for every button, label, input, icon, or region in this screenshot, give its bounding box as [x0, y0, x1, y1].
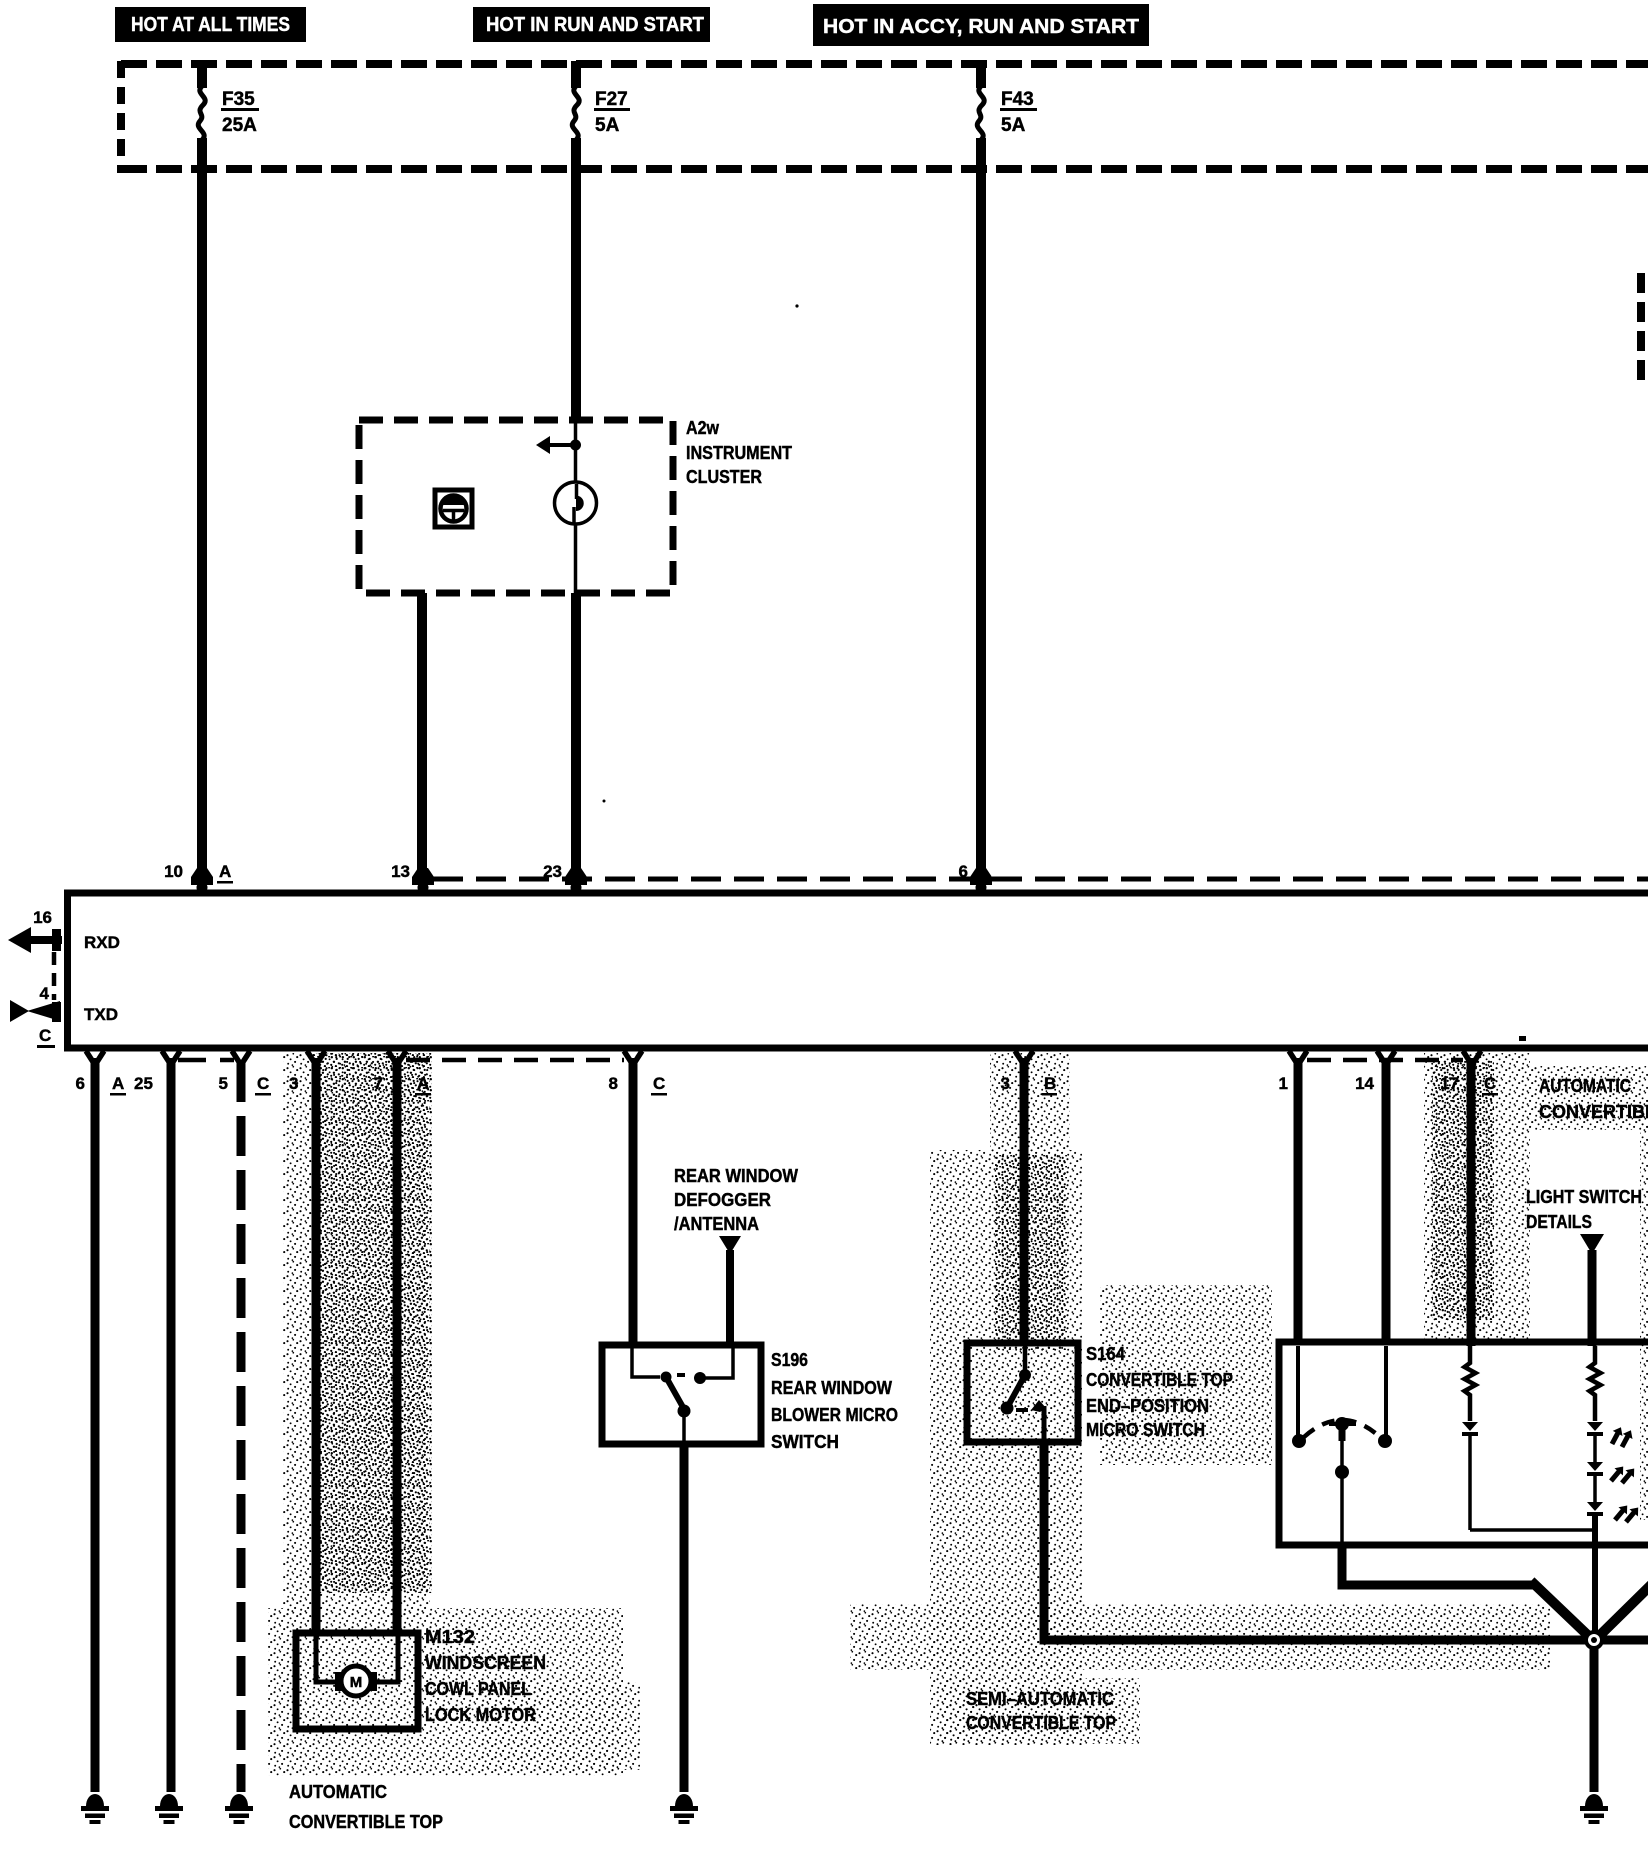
wire pin 1 to light switch	[1294, 1058, 1303, 1344]
svg-text:S196: S196	[771, 1350, 808, 1370]
lamp chain to junction	[1592, 1516, 1598, 1640]
dashed connector line above module	[433, 877, 1648, 882]
svg-text:5: 5	[219, 1074, 228, 1093]
fuse F43	[977, 86, 984, 140]
wire cluster pin 23 to module (thick below cluster)	[571, 593, 581, 874]
dashed line right edge (cut box)	[1637, 273, 1645, 380]
S196 internals: left feed	[632, 1348, 660, 1377]
svg-text:END–POSITION: END–POSITION	[1086, 1396, 1209, 1416]
wire pin 3/B to S164	[1020, 1058, 1029, 1346]
svg-text:F27: F27	[595, 89, 628, 110]
LED on pin 17 chain	[1462, 1422, 1478, 1436]
fuse box (dashed, cut off at right edge)	[121, 61, 1648, 173]
wire F43 feed	[976, 61, 986, 88]
instrument cluster A2w (dashed box)	[359, 420, 673, 593]
pin 6 top connector	[959, 862, 992, 893]
svg-text:CLUSTER: CLUSTER	[686, 467, 762, 487]
wire F27 feed	[571, 61, 581, 88]
svg-text:WINDSCREEN: WINDSCREEN	[425, 1653, 546, 1673]
dashed pin group links below module	[178, 1058, 234, 1063]
node junction dot	[570, 440, 581, 451]
svg-text:LOCK MOTOR: LOCK MOTOR	[425, 1705, 536, 1725]
SPECKLE	[268, 1053, 1648, 1776]
wire F35 to module pin 10	[197, 138, 207, 874]
S164 internals	[1023, 1346, 1028, 1372]
svg-text:CONVERTIBLE TOP: CONVERTIBLE TOP	[966, 1713, 1116, 1733]
switch S164 box	[967, 1343, 1078, 1442]
feed connector triangle	[1580, 1234, 1604, 1254]
dashed link 16-4	[52, 952, 57, 1000]
contact 1	[1296, 1346, 1300, 1436]
svg-text:S164: S164	[1086, 1344, 1125, 1364]
pin 10 connector	[164, 862, 233, 893]
svg-text:C: C	[1484, 1074, 1496, 1093]
svg-text:5A: 5A	[1001, 115, 1026, 136]
svg-text:A: A	[417, 1074, 429, 1093]
svg-text:M132: M132	[425, 1627, 475, 1647]
svg-text:16: 16	[33, 908, 52, 927]
wire F27 to instrument cluster	[571, 138, 581, 423]
svg-text:1: 1	[1279, 1074, 1288, 1093]
fuse F35	[198, 86, 205, 140]
svg-text:13: 13	[391, 862, 410, 881]
svg-text:CONVERTIBLE TOP: CONVERTIBLE TOP	[1086, 1370, 1233, 1390]
wire lamp to cluster bottom	[574, 524, 578, 593]
wire pin 3 to M132	[312, 1058, 321, 1633]
svg-text:8: 8	[609, 1074, 618, 1093]
arrow pointing left	[548, 443, 575, 447]
svg-text:REAR WINDOW: REAR WINDOW	[674, 1166, 798, 1186]
header label HOT IN RUN AND START	[473, 7, 710, 42]
svg-text:AUTOMATIC: AUTOMATIC	[289, 1782, 387, 1802]
wire pin 5/C to ground (dashed)	[237, 1062, 246, 1792]
svg-text:HOT IN RUN AND START: HOT IN RUN AND START	[486, 14, 704, 36]
svg-text:B: B	[1044, 1074, 1056, 1093]
svg-text:14: 14	[1355, 1074, 1374, 1093]
ground G2	[155, 1794, 183, 1824]
ground G1	[81, 1794, 109, 1824]
svg-text:DETAILS: DETAILS	[1526, 1212, 1592, 1232]
svg-text:C: C	[257, 1074, 269, 1093]
wire junction to ground	[1590, 1640, 1599, 1792]
motor M circle	[341, 1666, 371, 1696]
dashed wiper arc	[1304, 1420, 1380, 1437]
wire F35 feed	[197, 61, 207, 88]
wiper	[1335, 1417, 1349, 1431]
svg-text:HOT IN ACCY, RUN AND START: HOT IN ACCY, RUN AND START	[823, 16, 1139, 38]
svg-text:DEFOGGER: DEFOGGER	[674, 1190, 771, 1210]
svg-text:10: 10	[164, 862, 183, 881]
LED 1 with arrows	[1587, 1422, 1636, 1450]
svg-text:C: C	[39, 1026, 51, 1045]
wire cluster bottom-left exit to module pin 13	[417, 593, 427, 874]
contact 14	[1384, 1346, 1388, 1436]
svg-text:RXD: RXD	[84, 933, 120, 952]
wire F43 to module pin 6	[976, 138, 986, 874]
svg-text:REAR WINDOW: REAR WINDOW	[771, 1378, 892, 1398]
LED 3 with arrows	[1587, 1502, 1642, 1526]
svg-text:A: A	[219, 862, 231, 881]
svg-text:7: 7	[374, 1074, 383, 1093]
lamp symbol (indicator bulb)	[555, 482, 597, 524]
header label HOT IN ACCY, RUN AND START	[813, 4, 1149, 46]
ground G5	[1580, 1794, 1608, 1824]
svg-text:A: A	[112, 1074, 124, 1093]
light switch box (cut off at right)	[1279, 1342, 1648, 1545]
motor M132 box	[296, 1633, 418, 1729]
M132 leads	[316, 1636, 338, 1682]
svg-text:F43: F43	[1001, 89, 1034, 110]
svg-text:INSTRUMENT: INSTRUMENT	[686, 443, 792, 463]
wire pin 8/C to S196	[629, 1058, 638, 1348]
svg-text:LIGHT SWITCH: LIGHT SWITCH	[1526, 1187, 1642, 1207]
wire pin 7/A to M132	[393, 1058, 402, 1633]
wire feed to light switch	[1588, 1250, 1597, 1346]
ground G3	[225, 1794, 253, 1824]
svg-text:M: M	[350, 1674, 363, 1691]
svg-text:3: 3	[289, 1074, 298, 1093]
svg-text:/ANTENNA: /ANTENNA	[674, 1214, 759, 1234]
svg-text:F35: F35	[222, 89, 255, 110]
control module box (cut off at right edge)	[68, 893, 1648, 1048]
wire pin 14 to light switch	[1382, 1058, 1391, 1344]
svg-text:6: 6	[76, 1074, 85, 1093]
svg-text:TXD: TXD	[84, 1005, 118, 1024]
svg-text:23: 23	[543, 862, 562, 881]
svg-text:A2w: A2w	[686, 418, 720, 438]
wire inside cluster (thin)	[574, 423, 578, 482]
svg-text:25: 25	[134, 1074, 153, 1093]
svg-text:SEMI–AUTOMATIC: SEMI–AUTOMATIC	[966, 1689, 1114, 1709]
wire antenna to S196	[726, 1250, 734, 1348]
pin 4 TXD arrow (left, pointing right)	[10, 984, 118, 1048]
LED 2 with arrows	[1587, 1462, 1638, 1487]
GROUNDS	[795, 304, 798, 307]
wire pin 6 to ground	[91, 1058, 100, 1792]
switch S196 box	[602, 1345, 761, 1444]
svg-text:SWITCH: SWITCH	[771, 1432, 839, 1452]
wire pin 17/C to light switch	[1467, 1058, 1476, 1346]
svg-text:6: 6	[959, 862, 968, 881]
svg-text:CONVERTIBLE: CONVERTIBLE	[1539, 1102, 1648, 1122]
wire S164 output down and right	[1044, 1442, 1648, 1640]
svg-text:BLOWER MICRO: BLOWER MICRO	[771, 1405, 898, 1425]
S196 dashed contact gap	[677, 1373, 691, 1377]
svg-text:CONVERTIBLE TOP: CONVERTIBLE TOP	[289, 1812, 443, 1832]
svg-text:25A: 25A	[222, 115, 257, 136]
svg-text:COWL PANEL: COWL PANEL	[425, 1679, 531, 1699]
svg-text:C: C	[653, 1074, 665, 1093]
S196 output inside	[682, 1411, 686, 1444]
svg-text:5A: 5A	[595, 115, 620, 136]
bottom pin connectors (Y)	[86, 1051, 1481, 1065]
wire S196 to ground	[680, 1444, 689, 1792]
svg-text:AUTOMATIC: AUTOMATIC	[1539, 1076, 1631, 1096]
ground G4	[670, 1794, 698, 1824]
S196 right side to antenna	[700, 1348, 733, 1378]
svg-text:4: 4	[40, 984, 50, 1003]
resistor on lamp chain	[1590, 1346, 1601, 1421]
stray mark	[1519, 1036, 1526, 1041]
svg-text:17: 17	[1440, 1074, 1459, 1093]
pin 23 connector	[543, 862, 587, 893]
svg-text:3: 3	[1001, 1074, 1010, 1093]
bottom pin labels	[76, 1074, 1498, 1096]
svg-text:MICRO SWITCH: MICRO SWITCH	[1086, 1420, 1205, 1440]
wire diagonal up-right from junction	[1591, 1584, 1648, 1644]
gauge icon (square with wheel)	[435, 490, 472, 527]
wiper output wire	[1342, 1545, 1536, 1585]
S196 switch blade	[666, 1377, 684, 1409]
wire diagonal to junction	[1531, 1581, 1597, 1644]
junction ring node	[1584, 1630, 1604, 1650]
resistor on pin 17 chain	[1465, 1346, 1476, 1421]
pin 16 RXD arrow (left, pointing left)	[8, 908, 120, 953]
antenna connector triangle	[719, 1236, 741, 1254]
svg-text:HOT AT ALL TIMES: HOT AT ALL TIMES	[131, 14, 290, 36]
fuse F27	[572, 86, 579, 140]
pin 13 connector	[391, 862, 434, 893]
header label HOT AT ALL TIMES	[115, 7, 306, 42]
wire pin A/25 to ground	[167, 1058, 176, 1792]
